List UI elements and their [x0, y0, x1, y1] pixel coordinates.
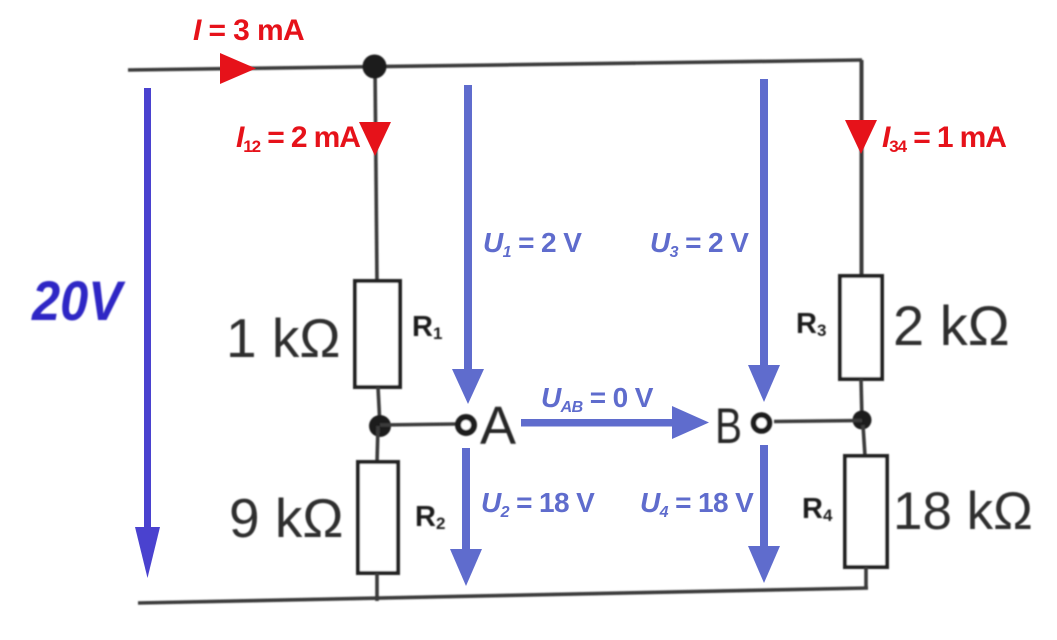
- svg-text:R1: R1: [412, 311, 442, 343]
- svg-text:R3: R3: [796, 308, 826, 340]
- svg-text:I = 3 mA: I = 3 mA: [193, 14, 304, 47]
- svg-text:2 kΩ: 2 kΩ: [893, 294, 1010, 357]
- svg-text:20V: 20V: [31, 269, 126, 332]
- red current annotations: [193, 14, 1006, 156]
- wire R4 to bottom: [864, 567, 868, 589]
- node top junction: [363, 55, 387, 79]
- terminal A circle: [458, 417, 474, 433]
- wire R2 to bottom: [375, 573, 379, 601]
- wire R1 to node A-junction: [378, 387, 380, 426]
- voltage arrow U2 down: [462, 448, 470, 551]
- voltage arrow U4 down: [760, 445, 768, 548]
- source voltage arrow 20V down: [144, 88, 151, 530]
- svg-text:B: B: [715, 398, 742, 454]
- voltage arrow UAB right from A to B: [521, 419, 674, 427]
- wire node to terminal A: [380, 424, 456, 425]
- svg-text:U1 = 2 V: U1 = 2 V: [483, 227, 582, 261]
- voltage arrow U1 down: [464, 85, 472, 372]
- wire R3 to node B-junction: [861, 379, 862, 420]
- arrow I12 down on left branch: [359, 122, 391, 156]
- terminal B circle: [754, 415, 770, 431]
- svg-text:I34 = 1 mA: I34 = 1 mA: [882, 121, 1006, 156]
- svg-text:R2: R2: [415, 501, 445, 533]
- node between R1 and R2: [369, 415, 391, 437]
- resistor R2: [358, 462, 398, 573]
- svg-text:UAB = 0 V: UAB = 0 V: [541, 382, 654, 416]
- svg-text:9 kΩ: 9 kΩ: [229, 487, 344, 549]
- svg-text:R4: R4: [802, 493, 833, 525]
- svg-text:A: A: [480, 396, 516, 456]
- wire right vertical (top corner to R3): [860, 60, 864, 277]
- blue voltage annotations: [31, 79, 780, 586]
- svg-text:1 kΩ: 1 kΩ: [226, 307, 341, 369]
- black schematic group: [128, 55, 1033, 604]
- arrow I right on top wire: [220, 53, 256, 84]
- svg-text:U2 = 18 V: U2 = 18 V: [481, 487, 595, 521]
- wire top (left end to right corner): [128, 60, 862, 70]
- wire node to R2: [377, 426, 378, 463]
- resistor R4: [845, 456, 887, 567]
- wire from top node down to R1: [375, 66, 377, 282]
- resistor R1: [355, 281, 400, 387]
- arrow I34 down on right branch: [845, 120, 877, 154]
- wire node to terminal B: [774, 421, 862, 422]
- voltage arrow U3 down: [760, 79, 768, 368]
- svg-text:18 kΩ: 18 kΩ: [893, 482, 1033, 541]
- resistor R3: [840, 276, 882, 379]
- wire bottom: [138, 588, 868, 603]
- wire node to R4: [863, 425, 865, 456]
- svg-text:U4 = 18 V: U4 = 18 V: [640, 487, 754, 521]
- node between R3 and R4: [853, 411, 872, 430]
- svg-text:I12 = 2 mA: I12 = 2 mA: [236, 121, 360, 156]
- svg-text:U3 = 2 V: U3 = 2 V: [650, 227, 749, 261]
